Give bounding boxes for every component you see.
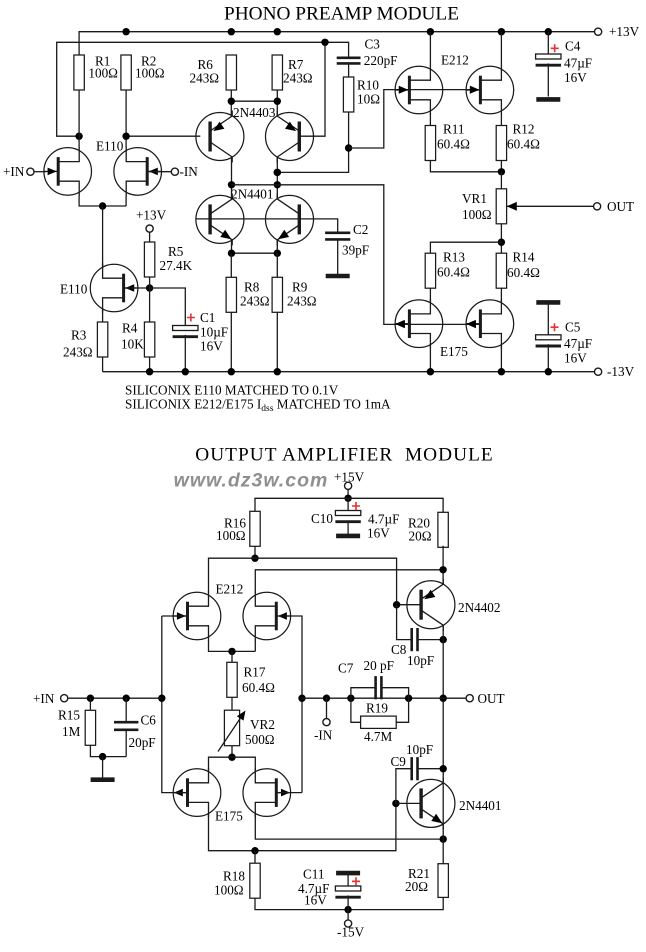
svg-text:E110: E110 <box>60 281 88 296</box>
svg-text:E175: E175 <box>215 809 243 824</box>
svg-text:47µF: 47µF <box>564 336 592 351</box>
svg-text:E110: E110 <box>96 139 124 154</box>
svg-text:20Ω: 20Ω <box>409 529 432 544</box>
svg-text:4.7µF: 4.7µF <box>368 512 399 527</box>
svg-text:500Ω: 500Ω <box>245 732 275 747</box>
svg-text:16V: 16V <box>367 526 390 541</box>
svg-text:C7: C7 <box>338 661 354 676</box>
svg-text:20pF: 20pF <box>129 735 156 750</box>
svg-text:60.4Ω: 60.4Ω <box>437 137 470 152</box>
svg-text:C9: C9 <box>391 754 407 769</box>
svg-text:+IN: +IN <box>3 164 25 179</box>
svg-text:60.4Ω: 60.4Ω <box>242 680 275 695</box>
svg-text:R12: R12 <box>513 122 535 137</box>
svg-text:VR2: VR2 <box>250 717 275 732</box>
svg-text:2N4403: 2N4403 <box>233 105 276 120</box>
svg-text:16V: 16V <box>564 70 587 85</box>
svg-text:10pF: 10pF <box>407 653 434 668</box>
svg-text:2N4401: 2N4401 <box>231 187 274 202</box>
svg-text:243Ω: 243Ω <box>190 71 220 86</box>
svg-text:R8: R8 <box>244 280 260 295</box>
svg-text:C6: C6 <box>141 713 157 728</box>
svg-text:10K: 10K <box>121 336 144 351</box>
svg-text:10µF: 10µF <box>200 325 228 340</box>
svg-text:100Ω: 100Ω <box>216 528 246 543</box>
svg-text:16V: 16V <box>200 339 223 354</box>
svg-text:+15V: +15V <box>334 469 365 484</box>
svg-text:100Ω: 100Ω <box>88 66 118 81</box>
svg-text:2N4402: 2N4402 <box>458 600 501 615</box>
svg-text:47µF: 47µF <box>564 55 592 70</box>
svg-text:-IN: -IN <box>180 164 199 179</box>
svg-text:R10: R10 <box>357 78 379 93</box>
svg-text:100Ω: 100Ω <box>462 207 492 222</box>
svg-text:-13V: -13V <box>607 364 635 379</box>
svg-text:10Ω: 10Ω <box>357 92 380 107</box>
svg-text:10pF: 10pF <box>406 742 433 757</box>
svg-text:-15V: -15V <box>337 925 365 940</box>
svg-text:SILICONIX E110 MATCHED TO: SILICONIX E110 MATCHED TO 0.1V <box>125 382 339 397</box>
svg-text:39pF: 39pF <box>342 243 369 258</box>
svg-text:20 pF: 20 pF <box>364 658 394 673</box>
svg-text:1M: 1M <box>62 724 81 739</box>
svg-text:27.4K: 27.4K <box>160 258 193 273</box>
svg-text:E175: E175 <box>440 344 468 359</box>
svg-text:R5: R5 <box>168 244 184 259</box>
svg-text:R3: R3 <box>71 328 87 343</box>
svg-text:4.7M: 4.7M <box>364 729 392 744</box>
svg-text:R6: R6 <box>198 57 214 72</box>
svg-text:243Ω: 243Ω <box>63 344 93 359</box>
svg-text:243Ω: 243Ω <box>287 294 317 309</box>
svg-text:R7: R7 <box>288 57 304 72</box>
svg-text:C4: C4 <box>565 38 581 53</box>
svg-text:R19: R19 <box>366 701 388 716</box>
svg-text:16V: 16V <box>564 350 587 365</box>
svg-text:243Ω: 243Ω <box>283 71 313 86</box>
svg-text:C11: C11 <box>303 867 325 882</box>
svg-text:R18: R18 <box>223 868 245 883</box>
svg-text:E212: E212 <box>441 53 469 68</box>
svg-text:R11: R11 <box>443 122 465 137</box>
svg-text:60.4Ω: 60.4Ω <box>507 265 540 280</box>
svg-text:+13V: +13V <box>136 208 167 223</box>
svg-text:SILICONIX E212/E175 Idss MA: SILICONIX E212/E175 Idss MATCHED TO 1mA <box>125 397 391 415</box>
svg-text:C2: C2 <box>353 222 368 237</box>
svg-text:60.4Ω: 60.4Ω <box>507 137 540 152</box>
svg-text:100Ω: 100Ω <box>214 882 244 897</box>
svg-text:2N4401: 2N4401 <box>459 798 502 813</box>
svg-text:R9: R9 <box>292 280 308 295</box>
svg-text:C10: C10 <box>311 511 333 526</box>
svg-text:C1: C1 <box>200 310 215 325</box>
svg-text:C3: C3 <box>365 36 381 51</box>
svg-text:R4: R4 <box>122 321 138 336</box>
svg-text:PHONO PREAMP MODULE: PHONO PREAMP MODULE <box>224 4 459 25</box>
svg-text:R17: R17 <box>244 665 266 680</box>
svg-text:+13V: +13V <box>609 24 640 39</box>
svg-text:20Ω: 20Ω <box>405 879 428 894</box>
svg-text:OUTPUT AMPLIFIER MODULE: OUTPUT AMPLIFIER MODULE <box>195 444 494 465</box>
svg-text:R13: R13 <box>443 249 465 264</box>
svg-text:60.4Ω: 60.4Ω <box>437 264 470 279</box>
svg-text:-IN: -IN <box>314 727 333 742</box>
svg-text:R14: R14 <box>513 249 535 264</box>
svg-text:C8: C8 <box>391 642 407 657</box>
svg-text:100Ω: 100Ω <box>135 66 165 81</box>
svg-text:+IN: +IN <box>33 691 55 706</box>
svg-text:E212: E212 <box>216 582 244 597</box>
svg-text:VR1: VR1 <box>462 191 487 206</box>
svg-text:243Ω: 243Ω <box>240 294 270 309</box>
svg-text:C5: C5 <box>565 319 581 334</box>
svg-text:16V: 16V <box>304 893 327 908</box>
svg-text:R15: R15 <box>58 708 80 723</box>
svg-text:OUT: OUT <box>478 691 505 706</box>
svg-text:OUT: OUT <box>607 199 634 214</box>
svg-text:www.dz3w.com: www.dz3w.com <box>174 470 329 492</box>
svg-text:220pF: 220pF <box>364 53 398 68</box>
